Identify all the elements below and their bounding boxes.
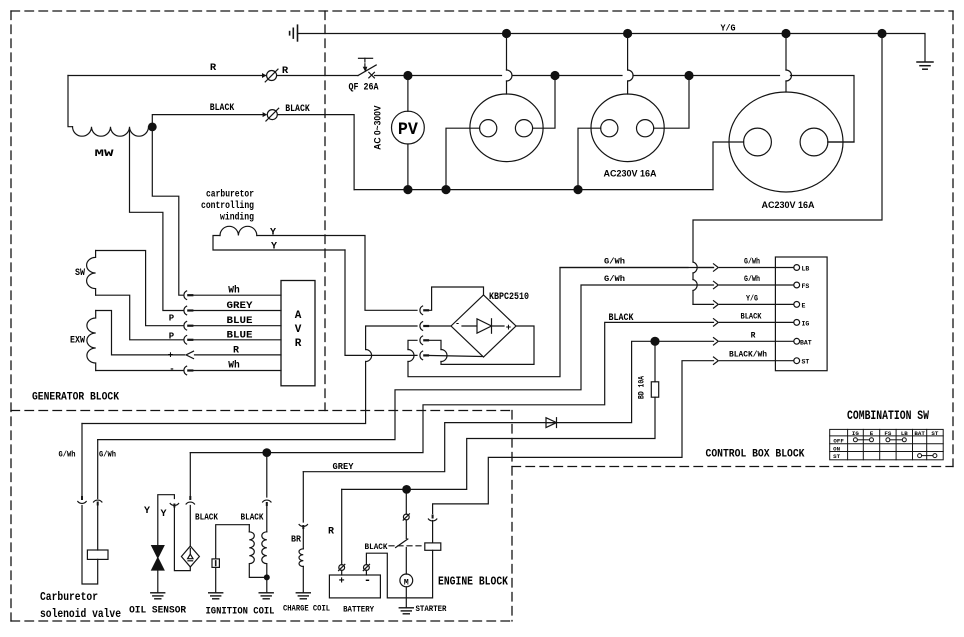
- connector AVR R row (arrow): [186, 351, 194, 358]
- svg-text:BAT: BAT: [800, 339, 812, 346]
- node BLACK row / ignition coil: [262, 448, 271, 457]
- border control box bottom: [512, 466, 953, 468]
- border generator/engine divider: [11, 410, 512, 412]
- ground (ignition coil): [259, 593, 273, 599]
- svg-text:G/Wh: G/Wh: [744, 275, 760, 284]
- svg-text:OIL SENSOR: OIL SENSOR: [129, 605, 187, 617]
- svg-text:M: M: [404, 578, 409, 587]
- combination switch table: [830, 429, 944, 460]
- svg-text:winding: winding: [220, 212, 254, 224]
- pin LB: [794, 265, 800, 271]
- pin FS: [794, 282, 800, 288]
- pin E: [794, 302, 800, 308]
- wire rectifier minus to carburetor solenoid: [82, 326, 417, 424]
- svg-text:+: +: [168, 351, 173, 361]
- node bus/socket2: [573, 185, 582, 194]
- svg-text:G/Wh: G/Wh: [99, 451, 116, 460]
- svg-text:controlling: controlling: [201, 200, 254, 212]
- wire R bus: [68, 75, 266, 77]
- svg-text:BLACK: BLACK: [285, 104, 310, 115]
- connector AVR BLUE row1: [184, 321, 187, 330]
- svg-text:AC 0~300V: AC 0~300V: [373, 105, 383, 150]
- svg-text:Y: Y: [160, 509, 166, 520]
- wire EXW top to AVR + row: [96, 311, 185, 355]
- connector chevron IG row: [714, 319, 719, 326]
- svg-text:-: -: [169, 365, 174, 375]
- svg-text:P: P: [169, 314, 175, 324]
- connector chevron ST row: [714, 357, 719, 364]
- connector chevron LB row: [560, 267, 714, 269]
- oil sensor bracket: [158, 495, 191, 571]
- starter switch connector circle: [403, 514, 409, 520]
- svg-text:R: R: [751, 331, 756, 340]
- node ignition coil bottom: [264, 574, 270, 580]
- svg-text:R: R: [295, 338, 302, 350]
- svg-text:IGNITION COIL: IGNITION COIL: [206, 606, 275, 618]
- connector rectifier AC2 row (Y bottom): [420, 351, 423, 360]
- wire EXW bottom to AVR - row: [96, 370, 184, 372]
- wire Y/G to combination switch E: [693, 34, 882, 305]
- svg-text:-: -: [364, 574, 371, 588]
- wire diode to GREY/charge coil: [303, 423, 556, 472]
- wire battery + drop: [341, 489, 343, 564]
- svg-text:Y: Y: [144, 506, 150, 517]
- hop arcs on Y/G drop at LB/FS rows: [693, 262, 697, 291]
- svg-text:A: A: [295, 310, 302, 322]
- svg-text:solenoid valve: solenoid valve: [40, 608, 121, 621]
- battery - terminal connector: [364, 565, 370, 571]
- hop arc at (408,355.4): [408, 350, 414, 362]
- svg-text:R: R: [233, 346, 239, 357]
- svg-text:Y/G: Y/G: [721, 23, 736, 34]
- wire BLACK/Wh to ST: [433, 361, 714, 514]
- svg-text:LB: LB: [901, 430, 908, 437]
- carburetor controlling winding: [220, 226, 257, 235]
- border engine bottom: [11, 620, 512, 622]
- wire BLACK (generator output): [152, 115, 265, 127]
- node R/socket2 junction: [684, 71, 693, 80]
- svg-text:BLACK: BLACK: [195, 512, 218, 523]
- main winding MW: [68, 76, 73, 127]
- node bus/socket1: [441, 185, 450, 194]
- connector on solenoid left wire: [81, 497, 83, 499]
- connector AVR Wh row: [184, 291, 187, 300]
- svg-text:IG: IG: [852, 430, 859, 437]
- connector plug on R wire: [262, 69, 278, 82]
- connector rectifier AC1 row (Y top): [420, 306, 423, 315]
- svg-text:COMBINATION SW: COMBINATION SW: [847, 409, 929, 423]
- diode (charge): [546, 418, 557, 428]
- socket 3 (large AC outlet) AC230V 16A: [713, 38, 854, 192]
- svg-text:G/Wh: G/Wh: [59, 451, 76, 460]
- svg-text:BLACK: BLACK: [365, 542, 389, 552]
- wire G/Wh from plus connector to LB: [408, 268, 714, 377]
- pin IG: [794, 320, 800, 326]
- svg-text:G/Wh: G/Wh: [604, 258, 625, 267]
- svg-text:AC230V 16A: AC230V 16A: [604, 169, 657, 179]
- wire MW tap to AVR GREY row: [130, 129, 184, 311]
- ground (spark plug): [209, 593, 223, 599]
- node Y/G socket1: [502, 29, 511, 38]
- svg-text:EXW: EXW: [70, 336, 85, 347]
- svg-text:ENGINE BLOCK: ENGINE BLOCK: [438, 576, 508, 589]
- svg-text:BLACK: BLACK: [210, 103, 235, 114]
- svg-text:GREY: GREY: [333, 461, 354, 472]
- border generator right (vertical): [324, 11, 326, 411]
- svg-text:QF 26A: QF 26A: [349, 83, 379, 94]
- connector on oil sensor unit wire: [189, 497, 191, 499]
- svg-text:CONTROL BOX BLOCK: CONTROL BOX BLOCK: [706, 449, 805, 461]
- contact link ST BAT-ST: [918, 454, 922, 458]
- ground (oil sensor): [151, 593, 165, 599]
- starter switch blade: [396, 539, 408, 548]
- connector on charge coil wire: [299, 525, 307, 527]
- earth ground (top right): [917, 62, 933, 69]
- svg-text:GENERATOR BLOCK: GENERATOR BLOCK: [32, 392, 119, 404]
- svg-text:FS: FS: [802, 283, 810, 290]
- spark plug branch: [216, 525, 250, 559]
- hop arc at (365.6,355.4): [366, 350, 372, 362]
- node BAT/fuse junction: [650, 337, 659, 346]
- connector on relay wire: [432, 516, 434, 518]
- socket 2 (AC outlet) AC230V 16A: [578, 38, 689, 186]
- border top (shared generator/control box blocks): [11, 10, 953, 12]
- svg-text:Wh: Wh: [228, 360, 240, 372]
- svg-text:CHARGE COIL: CHARGE COIL: [283, 604, 330, 614]
- pins and rows of combination connector: [560, 264, 812, 366]
- svg-text:P: P: [169, 332, 175, 342]
- node R/PV junction: [403, 71, 412, 80]
- chassis ground (left, feeds Y/G bus): [290, 25, 298, 41]
- node battery + / starter junction: [402, 485, 411, 494]
- connector plug on BLACK wire: [263, 108, 279, 121]
- svg-text:Y: Y: [270, 228, 276, 239]
- wire neutral bottom bus: [354, 189, 713, 191]
- svg-text:E: E: [870, 430, 874, 437]
- svg-text:R: R: [282, 65, 289, 77]
- bridge rectifier diamond: [451, 295, 516, 357]
- connector on solenoid right wire: [97, 503, 99, 505]
- wire Y (top) to rectifier: [257, 236, 417, 311]
- node Y/G right drop: [877, 29, 886, 38]
- svg-text:KBPC2510: KBPC2510: [489, 291, 529, 303]
- svg-text:+: +: [339, 577, 345, 588]
- battery body: [329, 575, 380, 598]
- connector on ignition coil wire: [266, 503, 268, 505]
- svg-text:G/Wh: G/Wh: [604, 275, 625, 284]
- pin BAT: [794, 338, 800, 344]
- svg-text:ST: ST: [802, 359, 810, 366]
- svg-text:ST: ST: [833, 453, 840, 460]
- connector rectifier plus row: [420, 336, 423, 345]
- wire G/Wh to FS: [98, 285, 714, 440]
- connector chevron E row: [714, 301, 719, 308]
- wire BLACK to IG: [190, 322, 713, 452]
- svg-text:BAT: BAT: [914, 430, 925, 437]
- svg-text:R: R: [328, 527, 334, 538]
- connector AVR BLUE row2: [184, 336, 187, 345]
- contact link OFF IG-E: [853, 438, 857, 442]
- svg-text:-: -: [455, 320, 460, 329]
- node Y/G socket3: [781, 29, 790, 38]
- svg-text:BLACK/Wh: BLACK/Wh: [729, 351, 767, 360]
- svg-text:Y/G: Y/G: [746, 295, 758, 304]
- connector on oil sensor right wire: [173, 505, 175, 507]
- wire SW bottom to AVR BLUE row2: [96, 295, 184, 340]
- border left (generator + engine blocks): [10, 11, 12, 621]
- wire rectifier plus elbow to + corner: [425, 326, 535, 364]
- svg-text:LB: LB: [802, 266, 810, 273]
- wire SW top to AVR BLUE row1: [96, 251, 184, 326]
- mechanical link dashes to relay: [389, 545, 425, 547]
- connector chevron FS row: [714, 281, 719, 288]
- svg-text:STARTER: STARTER: [416, 604, 448, 614]
- charge coil winding: [299, 549, 303, 567]
- ground (charge coil): [296, 593, 310, 599]
- battery + terminal connector: [339, 565, 345, 571]
- svg-text:AC230V 16A: AC230V 16A: [762, 200, 815, 210]
- svg-text:E: E: [802, 302, 806, 309]
- wire R to BAT: [546, 341, 714, 422]
- svg-text:BLACK: BLACK: [241, 512, 264, 523]
- sub winding SW: [87, 251, 96, 296]
- carburetor solenoid valve wires: [82, 424, 98, 585]
- starter relay coil: [425, 543, 441, 550]
- contact link OFF FS-LB: [886, 438, 890, 442]
- carburetor solenoid valve body: [87, 550, 108, 559]
- svg-text:MW: MW: [95, 149, 114, 160]
- border engine right (vertical): [511, 411, 513, 622]
- svg-text:IG: IG: [802, 320, 810, 327]
- excitation winding EXW: [87, 311, 96, 371]
- AVR input connectors (chevron+dash) and stubs: [184, 291, 281, 375]
- spark plug body: [212, 559, 219, 568]
- ignition coil windings: [262, 532, 267, 578]
- svg-text:GREY: GREY: [227, 301, 253, 312]
- combination switch connector box: [775, 257, 827, 371]
- svg-text:PV: PV: [398, 120, 418, 140]
- node R/socket1 junction: [550, 71, 559, 80]
- border right (control box block): [952, 11, 954, 467]
- wire ignition coil secondary feed: [266, 453, 268, 532]
- svg-text:R: R: [210, 62, 217, 74]
- oil sensor unit (diamond with diode): [181, 546, 199, 567]
- connector chevron BAT row: [714, 338, 719, 345]
- connector AVR GREY row: [184, 306, 187, 315]
- wire battery - loop to starter relay: [366, 550, 432, 598]
- svg-text:ON: ON: [833, 445, 840, 452]
- svg-text:BLUE: BLUE: [227, 331, 253, 342]
- charge coil wire: [302, 472, 304, 549]
- svg-text:Carburetor: Carburetor: [40, 591, 98, 604]
- AVR box: [281, 281, 315, 386]
- hop arc at (441,355.4): [441, 350, 447, 362]
- connector rectifier minus row: [420, 322, 423, 331]
- svg-text:G/Wh: G/Wh: [744, 258, 760, 267]
- starter motor M: [405, 548, 407, 575]
- svg-text:BD 10A: BD 10A: [638, 376, 647, 399]
- wire MW end to AVR Wh row: [152, 131, 183, 295]
- svg-text:carburetor: carburetor: [206, 189, 254, 201]
- svg-text:OFF: OFF: [833, 438, 844, 445]
- node Y/G socket2: [623, 29, 632, 38]
- wire oil sensor to BLACK row: [189, 453, 191, 546]
- ground (starter): [399, 608, 413, 614]
- node MW/black junction: [148, 123, 157, 132]
- svg-text:BATTERY: BATTERY: [343, 605, 375, 615]
- pin ST: [794, 358, 800, 364]
- breaker QF 26A: [358, 58, 376, 78]
- svg-text:Y: Y: [271, 242, 277, 253]
- voltmeter PV: [392, 76, 425, 190]
- svg-text:BLACK: BLACK: [741, 313, 762, 322]
- wire Y (bottom) to rectifier AC2: [345, 250, 417, 355]
- socket 1 (AC outlet): [446, 38, 555, 186]
- svg-text:SW: SW: [75, 268, 85, 279]
- starter switch wire: [405, 489, 407, 514]
- svg-text:Wh: Wh: [228, 285, 240, 297]
- wire Y/G bus: [298, 34, 926, 62]
- svg-text:BR: BR: [291, 535, 302, 545]
- svg-text:ST: ST: [931, 430, 938, 437]
- svg-text:+: +: [506, 323, 511, 333]
- svg-text:BLUE: BLUE: [227, 316, 253, 327]
- diode inside bridge: [462, 319, 504, 333]
- svg-text:FS: FS: [884, 430, 891, 437]
- connector AVR Wh row2: [184, 366, 187, 375]
- svg-text:V: V: [295, 324, 302, 336]
- fuse BD 10A: [654, 341, 656, 382]
- oil sensor bowtie (double triangle): [152, 546, 164, 558]
- node bus/PV: [403, 185, 412, 194]
